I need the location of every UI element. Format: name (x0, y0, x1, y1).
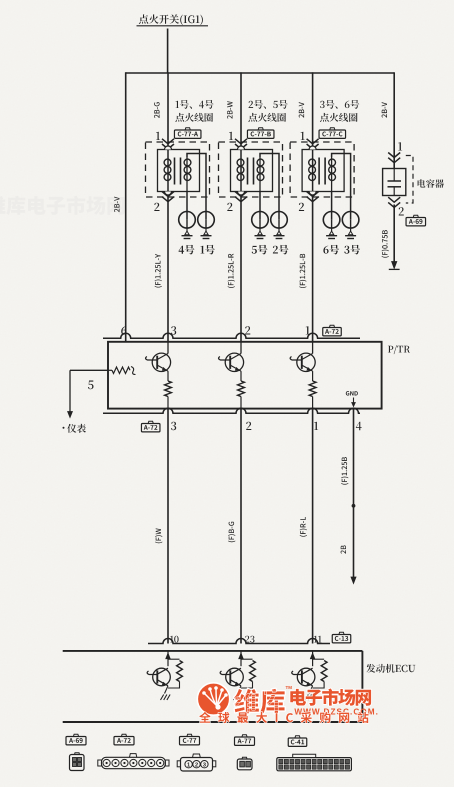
wire P/TR to ECU #2 (240, 409, 242, 644)
pin 2 (capacitor) (399, 207, 404, 215)
junction dot (352, 504, 356, 508)
pin 5 stub wire (70, 370, 108, 412)
connector pictograph C-77 (177, 754, 216, 771)
connector pictograph C-41 (277, 754, 352, 771)
wire label 2B (341, 545, 346, 553)
shield chevrons top (coil 2) (235, 139, 247, 149)
wire label 2B-W (227, 101, 232, 118)
pin 11 (ECU) (314, 636, 322, 643)
ECU internal ground 1 (161, 686, 171, 700)
wire ignition coil 2 feed (240, 72, 242, 149)
emitter resistor R3 (309, 371, 316, 409)
body ground end (capacitor) (389, 262, 400, 270)
capacitor C1 symbol (388, 169, 402, 196)
wire label 2B-G (154, 102, 160, 118)
shield chevrons bottom (coil 2) (235, 192, 247, 202)
connector label A-69 (legend) (66, 734, 86, 745)
capacitor C1 case (383, 169, 406, 196)
ECU driver transistor Q5 (226, 651, 256, 688)
ground (cyl 5号) (255, 228, 266, 238)
shield chevrons top (coil 1) (162, 139, 174, 149)
ignition coil 2 transformer (237, 150, 279, 220)
connector label A-72 (P/TR bottom) (141, 421, 160, 432)
wire ignition coil 1 feed (167, 72, 169, 149)
wire label (F)1.25L-R (228, 254, 235, 288)
ignition coil 1 case (158, 146, 200, 195)
spark plug circle left (cyl 6号) (323, 192, 340, 229)
instrument cluster label 仪表 (63, 424, 86, 433)
ground (cyl 2号) (274, 228, 285, 238)
ECU internal ground 2 (234, 686, 244, 700)
svg-text:2: 2 (195, 763, 198, 769)
pin 6 (P/TR top) (121, 326, 126, 335)
connector label C-77-C (319, 128, 346, 139)
connector label C-41 (legend) (288, 736, 307, 747)
svg-text:1: 1 (187, 763, 190, 769)
spark plug circle right (cyl 1号) (198, 212, 215, 229)
wire label (F)1.25L-Y (155, 254, 162, 288)
cylinder labels 5号 2号 (252, 245, 289, 255)
power transistor unit box (108, 342, 382, 409)
GND arrow (352, 398, 356, 407)
ignition coil 1 dashed enclosure (146, 142, 210, 197)
pin 2 (coil 1) (154, 203, 159, 211)
connector label A-72 (P/TR top) (323, 325, 342, 336)
pin 10 (ECU) (170, 636, 178, 643)
ECU driver transistor Q6 (297, 651, 327, 688)
P/TR label (388, 345, 410, 354)
pin 1 (coil 3) (301, 132, 305, 140)
wire label (F)B-G (228, 522, 235, 543)
ground (cyl 3号) (345, 228, 356, 238)
ignition switch label 点火开关(IG1) (137, 14, 209, 25)
connector pictograph A-72 (98, 754, 169, 769)
ignition coil 3 dashed enclosure (290, 142, 354, 197)
wire pin top into Q1 (167, 342, 169, 354)
pin 3 (P/TR bottom) (171, 422, 176, 431)
ignition coil 3 case (302, 146, 344, 195)
wire label 2B-V (capacitor) (382, 102, 387, 118)
wire label 2B-V (left branch) (114, 197, 119, 213)
ignition coil 2 case (231, 146, 273, 195)
wire left branch 2B-V (125, 72, 127, 342)
connector label A-77 (legend) (235, 735, 255, 746)
pin 3 (P/TR top) (171, 326, 176, 335)
pin 1 (P/TR bottom) (314, 422, 318, 430)
ignition coil 2 dashed enclosure (219, 142, 283, 197)
capacitor label 电容器 (418, 179, 444, 188)
engine ECU label 发动机ECU (366, 664, 415, 673)
watermark text 维库 (234, 689, 285, 714)
P/TR top connector bracket (103, 333, 360, 338)
ECU internal ground 3 (305, 686, 315, 700)
base lead Q3 (290, 357, 302, 361)
pin 2 (coil 3) (299, 203, 304, 211)
P/TR bottom connector bracket (103, 408, 360, 413)
pin 23 (ECU) (245, 636, 254, 643)
shield chevrons (capacitor bottom) (388, 197, 400, 207)
ignition coil 3 transformer (309, 150, 351, 220)
wire capacitor to ground (393, 205, 395, 267)
arrow to instrument cluster (68, 412, 73, 418)
wire ignition coil 3 feed (312, 72, 314, 149)
ignition coil 1 transformer (164, 150, 206, 220)
base lead ECU Q4 (147, 671, 157, 675)
base lead Q2 (219, 357, 231, 361)
wire label (F)1.25L-B (299, 254, 306, 288)
wire capacitor feed 2B-V (393, 72, 395, 168)
pin 2 (coil 2) (227, 203, 232, 211)
wire label (F)W (155, 528, 162, 543)
body ground arrow (pin 4) (351, 577, 356, 584)
connector label C-77 (legend) (180, 734, 200, 745)
wire coil 3 to P/TR (312, 197, 314, 342)
connector pictograph A-77 (237, 757, 252, 770)
shield chevrons (capacitor top) (388, 153, 400, 163)
watermark text 全球最大IC采购网站 (199, 712, 368, 723)
shield chevrons top (coil 3) (307, 139, 319, 149)
base lead Q1 (146, 357, 158, 361)
wire pin top into Q3 (312, 342, 314, 354)
connector label C-77-A (174, 128, 201, 139)
cylinder labels 6号 3号 (323, 245, 360, 255)
wire label (F)1.25B (341, 457, 348, 485)
watermark url WWW.DZSC.COM (291, 708, 379, 717)
connector label C-13 (ECU) (332, 632, 351, 643)
watermark TM (286, 685, 293, 690)
pin 1 (coil 2) (229, 132, 233, 140)
wire P/TR to ECU #1 (167, 409, 169, 644)
pin 1 (P/TR top) (306, 326, 310, 334)
power transistor Q2 (225, 353, 243, 371)
ECU driver transistor Q4 (153, 651, 183, 688)
faint scan ghost watermark (0, 196, 125, 215)
wire from ignition switch (167, 29, 169, 74)
ignition coil group title 3号、6号点火线圈 (320, 100, 359, 122)
wire P/TR to ECU #3 (312, 409, 314, 644)
watermark logo 维库 (197, 683, 229, 715)
pin 5 label (88, 381, 94, 390)
pin 1 (capacitor) (398, 142, 402, 150)
svg-text:TM: TM (286, 685, 293, 690)
ignition coil group title 2号、5号点火线圈 (248, 100, 287, 122)
connector label C-77-B (247, 128, 274, 139)
wire label (F)0.75B (382, 230, 389, 258)
shield chevrons bottom (coil 1) (162, 192, 174, 202)
connector label A-69 (capacitor) (406, 215, 426, 226)
GND label (346, 391, 358, 396)
spark plug circle left (cyl 5号) (252, 192, 269, 229)
base lead ECU Q5 (220, 671, 230, 675)
ground (cyl 1号) (201, 228, 212, 238)
ground (cyl 4号) (182, 228, 193, 238)
power transistor Q3 (297, 353, 315, 371)
top supply bus wire (126, 72, 395, 74)
wire coil 1 to P/TR (167, 197, 169, 342)
connector label A-72 (legend) (114, 734, 134, 745)
spark plug circle left (cyl 4号) (179, 192, 196, 229)
spark plug circle right (cyl 2号) (271, 212, 288, 229)
connector pictograph A-69 (70, 753, 85, 771)
wire label (F)R-L (300, 517, 307, 537)
watermark text 电子市场网 (290, 689, 371, 706)
ECU top connector bracket (148, 639, 330, 644)
power transistor Q1 (152, 353, 170, 371)
cylinder labels 4号 1号 (179, 245, 215, 255)
wire coil 2 to P/TR (240, 197, 242, 342)
bias resistor (pin 5) (108, 367, 136, 375)
wire pin top into Q2 (240, 342, 242, 354)
pin 2 (P/TR bottom) (246, 422, 251, 430)
wire pin 4 ground run (353, 409, 355, 578)
spark plug circle right (cyl 3号) (342, 212, 359, 229)
emitter resistor R1 (165, 371, 172, 409)
svg-text:3: 3 (203, 763, 206, 769)
base lead ECU Q6 (292, 671, 302, 675)
ground (cyl 6号) (326, 228, 337, 238)
pin 4 (P/TR bottom) (356, 422, 362, 430)
emitter resistor R2 (238, 371, 245, 409)
pin 1 (coil 1) (156, 132, 160, 140)
shield chevrons bottom (coil 3) (307, 192, 319, 202)
ignition coil group title 1号、4号点火线圈 (175, 100, 213, 122)
pin 2 (P/TR top) (245, 326, 250, 334)
engine ECU box (open left) (63, 651, 363, 722)
wire label 2B-V (299, 102, 304, 118)
capacitor dashed bracket (406, 156, 413, 204)
